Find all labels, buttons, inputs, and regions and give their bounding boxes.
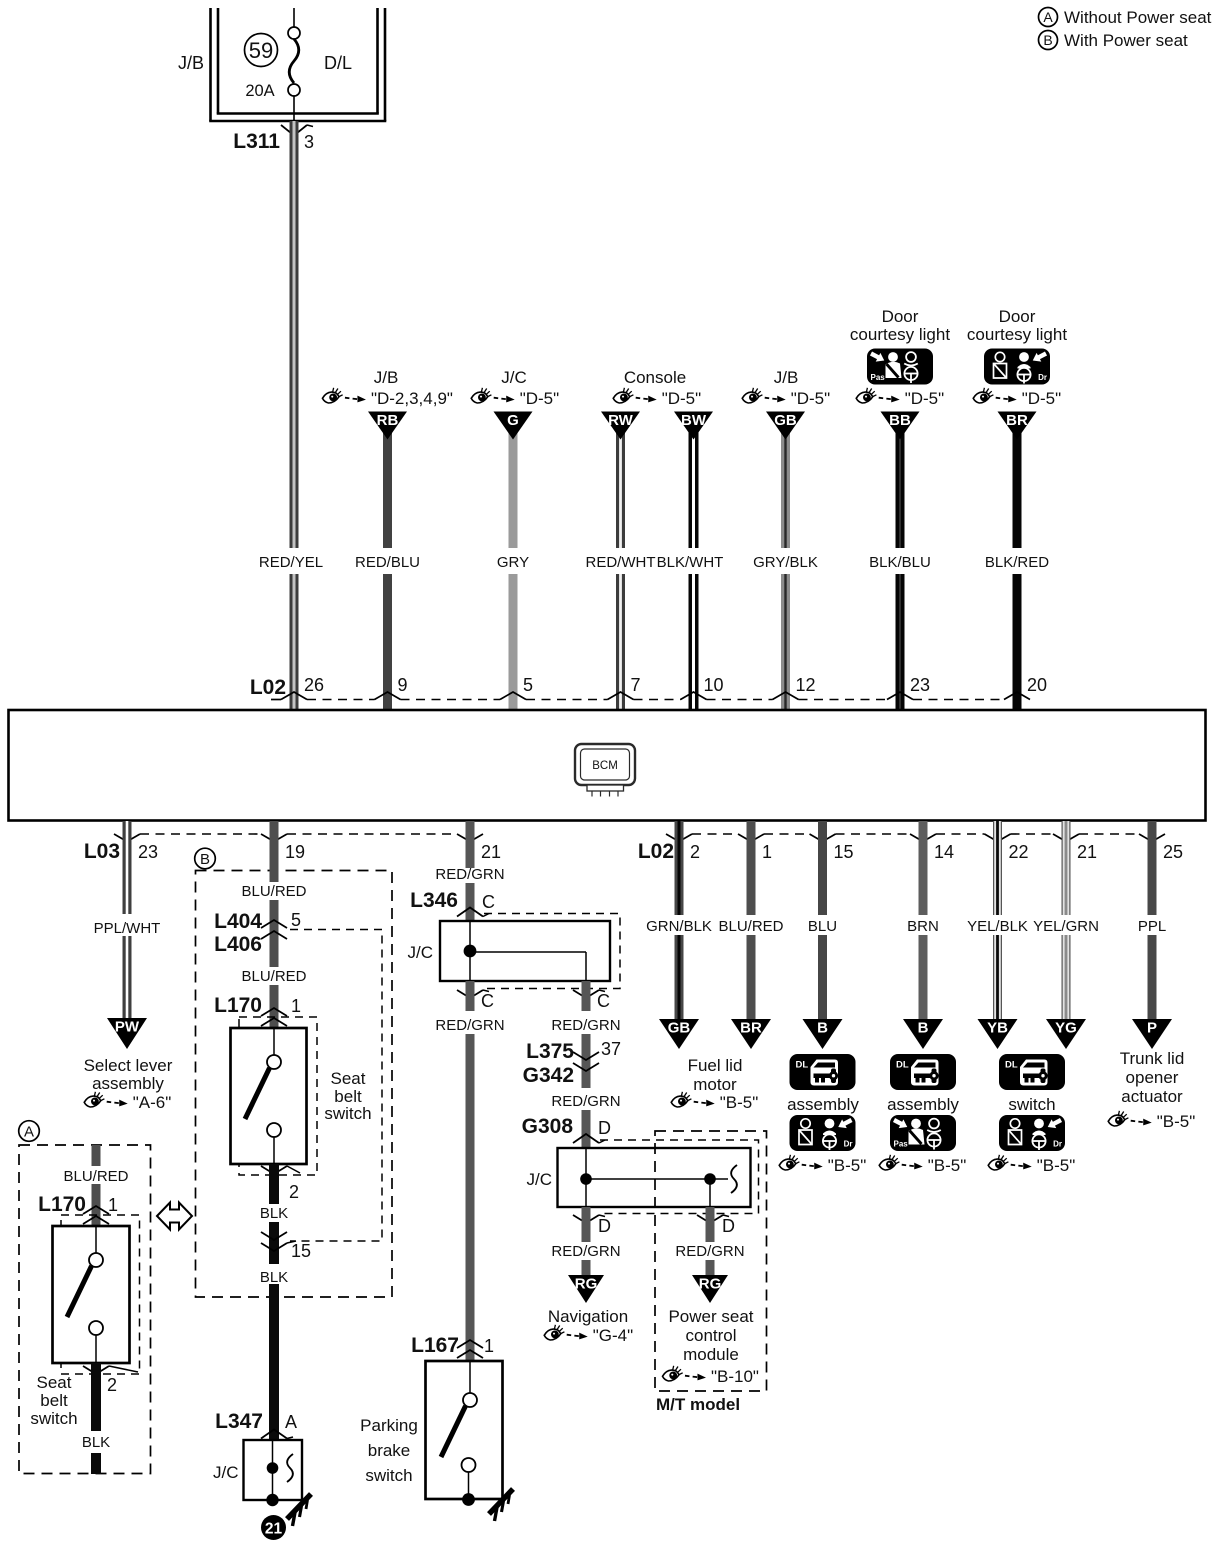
svg-text:BR: BR (1006, 412, 1028, 429)
pin D mark (G308 top) (573, 1134, 605, 1143)
svg-text:25: 25 (1163, 842, 1183, 862)
pin number 7 (L02 top) (631, 675, 641, 695)
svg-text:RED/GRN: RED/GRN (551, 1243, 620, 1260)
svg-text:"D-5": "D-5" (791, 389, 830, 408)
wire BLU/RED lower segment (747, 935, 756, 1020)
connector L375 label (526, 1040, 574, 1063)
svg-text:RED/GRN: RED/GRN (435, 866, 504, 883)
connector L167 pin marks (457, 1340, 483, 1358)
svg-text:L170: L170 (38, 1193, 86, 1216)
connector L170 label (A) (38, 1193, 86, 1216)
pin number 37 (601, 1039, 621, 1059)
svg-text:switch: switch (324, 1104, 371, 1123)
svg-text:BLU/RED: BLU/RED (241, 968, 306, 985)
see reference B-5 (fuel lid motor) (671, 1092, 758, 1112)
svg-text:Door: Door (999, 307, 1036, 326)
svg-text:RW: RW (608, 412, 634, 429)
wire BLK (B) segment 3 (269, 1284, 279, 1440)
wire label BLU/RED (upper) (241, 883, 306, 900)
svg-text:L03: L03 (84, 840, 120, 863)
header Door courtesy light (BR) (967, 307, 1067, 344)
svg-text:9: 9 (398, 675, 408, 695)
pin number 2 (L170 B) (289, 1182, 299, 1202)
svg-text:A: A (24, 1123, 34, 1140)
svg-text:Door: Door (882, 307, 919, 326)
svg-text:10: 10 (704, 675, 724, 695)
wire label PPL (1138, 918, 1166, 935)
triangle connector BB (881, 412, 920, 440)
svg-text:Seat: Seat (331, 1069, 366, 1088)
header Door courtesy light (BB) (850, 307, 950, 344)
connector L170 pin 1 marks (B) (261, 1008, 287, 1026)
svg-text:DL: DL (796, 1060, 809, 1071)
pin number 2 (L02 bottom) (690, 842, 700, 862)
svg-text:J/B: J/B (774, 368, 799, 387)
M/T model dashed box (655, 1131, 767, 1391)
svg-text:"D-5": "D-5" (905, 389, 944, 408)
svg-text:BRN: BRN (907, 918, 939, 935)
pin C mark (L346 top) (457, 908, 489, 917)
wire BLU/RED stub (A) (92, 1145, 101, 1166)
wire label BLK/BLU (869, 554, 931, 571)
svg-text:G308: G308 (522, 1115, 574, 1138)
triangle connector B (BLU) (803, 1019, 843, 1049)
connector pin 2 mark (L170 B) (261, 1166, 300, 1174)
svg-text:J/C: J/C (527, 1170, 553, 1189)
svg-text:Power seat: Power seat (668, 1307, 753, 1326)
svg-text:module: module (683, 1345, 739, 1364)
door courtesy icon Dr (pin 15) (790, 1115, 856, 1151)
svg-text:2: 2 (107, 1375, 117, 1395)
door courtesy light icon (passenger) (867, 349, 933, 385)
svg-text:RED/GRN: RED/GRN (675, 1243, 744, 1260)
svg-text:RG: RG (575, 1276, 598, 1293)
svg-text:GB: GB (774, 412, 797, 429)
legend circled B (1039, 31, 1058, 50)
pin number 1 (L167) (484, 1336, 494, 1356)
triangle connector BW (674, 412, 713, 440)
svg-text:With Power seat: With Power seat (1064, 31, 1188, 50)
svg-text:15: 15 (834, 842, 854, 862)
wire BLU upper segment (818, 821, 827, 915)
triangle connector BR (BLU/RED) (731, 1019, 771, 1049)
wire BLK (A) segment 2 (91, 1453, 101, 1474)
connector L02 top row pin marks and dashed boundary (271, 692, 1030, 700)
svg-text:B: B (1043, 32, 1052, 48)
triangle connector YB (YEL/BLK) (978, 1019, 1018, 1049)
label Parking brake switch (360, 1416, 418, 1485)
pin letter D (bottom left) (598, 1216, 611, 1236)
label switch (pins 22/21) (1008, 1095, 1055, 1114)
wire RED/GRN left branch segment (466, 981, 475, 1011)
wire label GRY (497, 554, 529, 571)
svg-text:21: 21 (481, 842, 501, 862)
break mark (G308 J/C) (731, 1165, 737, 1193)
wire BLU/RED upper segment (747, 821, 756, 915)
svg-text:PPL/WHT: PPL/WHT (94, 920, 161, 937)
svg-text:L375: L375 (526, 1040, 574, 1063)
wire PPL upper segment (1148, 821, 1157, 915)
label D/L (324, 53, 352, 73)
svg-text:L311: L311 (233, 130, 280, 153)
svg-text:19: 19 (285, 842, 305, 862)
wire label RED/GRN (top) (435, 866, 504, 883)
svg-text:"D-5": "D-5" (662, 389, 701, 408)
pin number 23 (L03) (138, 842, 158, 862)
connector L03 label (84, 840, 120, 863)
wire YEL/GRN lower segment (1062, 935, 1070, 1020)
wire label RED/GRN (power seat) (675, 1243, 744, 1260)
svg-text:GB: GB (668, 1020, 691, 1037)
wire label YEL/BLK (967, 918, 1028, 935)
svg-text:RED/GRN: RED/GRN (551, 1093, 620, 1110)
pin number 15 (291, 1241, 311, 1261)
label Navigation (548, 1307, 628, 1326)
wire BLK (B) segment 2 (269, 1222, 279, 1264)
wire BLK (B) segment 1 (269, 1164, 279, 1204)
svg-text:"D-5": "D-5" (1022, 389, 1061, 408)
svg-text:Dr: Dr (1038, 373, 1047, 382)
pin number 1 (L02 bottom) (762, 842, 772, 862)
svg-text:A: A (285, 1412, 297, 1432)
wire PPL lower segment (1148, 935, 1157, 1020)
svg-text:J/C: J/C (408, 943, 434, 962)
see reference D-5 (GB) (742, 388, 830, 408)
junction connector J/C (L347) box (244, 1440, 303, 1500)
svg-text:motor: motor (693, 1075, 737, 1094)
header J/B (RB column) (374, 368, 399, 387)
svg-text:26: 26 (304, 675, 324, 695)
seat belt switch (A) box and contacts (53, 1226, 130, 1363)
pin letter D (G308 top) (598, 1118, 611, 1138)
svg-text:59: 59 (249, 38, 273, 63)
wire to BCM at x=785.5 upper segment (781, 428, 790, 548)
door lock assembly icon (pin 15) (790, 1054, 856, 1090)
svg-text:YB: YB (987, 1020, 1008, 1037)
door courtesy light icon (driver) (984, 349, 1050, 385)
svg-text:D: D (598, 1118, 611, 1138)
svg-text:23: 23 (910, 675, 930, 695)
wire BRN upper segment (919, 821, 928, 915)
BCM module box (9, 710, 1206, 821)
connector L02 (top) label (250, 676, 286, 699)
wire to BCM at x=513 upper segment (509, 428, 518, 548)
connector pin 2 mark (L170 A) (83, 1366, 138, 1374)
svg-text:A: A (1043, 9, 1053, 25)
svg-text:1: 1 (762, 842, 772, 862)
wire BLU/RED (A) segment 2 (92, 1184, 101, 1226)
svg-text:12: 12 (796, 675, 816, 695)
see reference D-5 (Console) (613, 388, 701, 408)
svg-text:5: 5 (523, 675, 533, 695)
svg-text:L346: L346 (410, 889, 458, 912)
svg-text:BB: BB (889, 412, 911, 429)
svg-text:23: 23 (138, 842, 158, 862)
svg-text:C: C (481, 991, 494, 1011)
label Trunk lid opener actuator (1120, 1049, 1185, 1106)
seat belt switch dashed box (B) (239, 1017, 317, 1175)
wire label RED/WHT (586, 554, 656, 571)
wire label RED/BLU (355, 554, 420, 571)
svg-text:PW: PW (115, 1019, 140, 1036)
wire label RED/GRN (left branch) (435, 1017, 504, 1034)
wire to BCM at x=387.5 upper segment (383, 428, 392, 548)
svg-text:Fuel lid: Fuel lid (688, 1056, 743, 1075)
door lock switch icon (pins 22/21) (999, 1054, 1065, 1090)
wire RED/YEL lower segment (290, 574, 299, 710)
svg-text:RED/GRN: RED/GRN (435, 1017, 504, 1034)
connector L170 label (B) (214, 994, 262, 1017)
wire RED/GRN segment to G308 (582, 1110, 591, 1148)
svg-text:J/C: J/C (501, 368, 527, 387)
connector L375/G342 pin marks (573, 1052, 599, 1071)
triangle connector P (PPL) (1132, 1019, 1172, 1049)
label Power seat control module (668, 1307, 753, 1364)
pin letter C (bottom right) (597, 991, 610, 1011)
wire lower segment x=1017 (1013, 574, 1022, 710)
svg-text:21: 21 (1077, 842, 1097, 862)
svg-text:J/C: J/C (213, 1463, 239, 1482)
svg-text:L167: L167 (411, 1334, 459, 1357)
svg-text:YG: YG (1055, 1020, 1077, 1037)
svg-text:BR: BR (740, 1020, 762, 1037)
BCM connector icon (575, 744, 635, 797)
svg-text:Parking: Parking (360, 1416, 418, 1435)
svg-text:L406: L406 (214, 933, 262, 956)
svg-text:RB: RB (377, 412, 399, 429)
svg-text:assembly: assembly (787, 1095, 859, 1114)
wire PPL/WHT lower segment (123, 936, 132, 1018)
header J/B (GB column) (774, 368, 799, 387)
triangle connector RG (power seat) (692, 1275, 728, 1303)
label J/C (L346) (408, 943, 434, 962)
connector L347 label (215, 1410, 263, 1433)
pin D mark (G308 bottom right) (697, 1215, 729, 1223)
wire label BLK (A) (82, 1434, 110, 1451)
connector L404 label (214, 910, 262, 933)
connector L03 bottom pin marks (114, 834, 483, 842)
svg-text:J/B: J/B (178, 53, 204, 73)
svg-text:5: 5 (291, 910, 301, 930)
see reference B-10 (power seat) (662, 1366, 758, 1386)
wire RED/GRN to navigation segment 1 (582, 1207, 591, 1242)
junction dot at L347 ground node (266, 1494, 278, 1506)
svg-text:J/B: J/B (374, 368, 399, 387)
svg-text:1: 1 (484, 1336, 494, 1356)
svg-text:assembly: assembly (887, 1095, 959, 1114)
wire label BLK (B lower) (260, 1269, 288, 1286)
parking brake switch box and contacts (426, 1361, 503, 1499)
svg-text:brake: brake (368, 1441, 411, 1460)
svg-text:BLK: BLK (260, 1205, 288, 1222)
svg-text:"G-4": "G-4" (593, 1326, 633, 1345)
see reference B-5 (pin 14) (879, 1155, 966, 1175)
svg-text:"B-5": "B-5" (1157, 1112, 1196, 1131)
pin number 2 (L170 A) (107, 1375, 117, 1395)
wire label GRN/BLK (646, 918, 712, 935)
connector pin 15 marks (261, 1232, 296, 1251)
triangle connector GB (766, 412, 805, 440)
svg-text:C: C (597, 991, 610, 1011)
pin number 26 (L02 top) (304, 675, 324, 695)
wire RED/GRN to power seat segment 1 (706, 1207, 715, 1242)
section marker circled B (195, 848, 216, 869)
pin letter D (bottom right) (722, 1216, 735, 1236)
wire label BLU/RED (A) (63, 1168, 128, 1185)
wire BLU/RED segment 3 (270, 985, 279, 1028)
see reference D-5 (BR) (973, 388, 1061, 408)
svg-text:37: 37 (601, 1039, 621, 1059)
svg-text:RED/BLU: RED/BLU (355, 554, 420, 571)
wire label RED/GRN (right branch) (551, 1017, 620, 1034)
wire YEL/BLK upper segment (994, 821, 1002, 915)
wire YEL/GRN upper segment (1062, 821, 1070, 915)
svg-text:"B-10": "B-10" (711, 1367, 759, 1386)
svg-text:GRN/BLK: GRN/BLK (646, 918, 712, 935)
see reference D-2,3,4,9 (RB) (322, 388, 453, 408)
svg-text:B: B (817, 1020, 828, 1037)
door lock assembly icon (pin 14) (890, 1054, 956, 1090)
section marker circled A (19, 1121, 40, 1142)
svg-text:7: 7 (631, 675, 641, 695)
pin number 12 (L02 top) (796, 675, 816, 695)
connector L404/L406 pin marks (261, 920, 287, 939)
wire lower segment x=387.5 (383, 574, 392, 710)
see reference D-5 (BB) (856, 388, 944, 408)
see reference G-4 (navigation) (544, 1325, 633, 1345)
svg-text:BLK/RED: BLK/RED (985, 554, 1049, 571)
pin number 5 (L02 top) (523, 675, 533, 695)
svg-text:1: 1 (291, 996, 301, 1016)
wire to BCM at x=620.5 upper segment (616, 428, 625, 548)
legend circled A (1039, 8, 1058, 27)
pin number 25 (L02 bottom) (1163, 842, 1183, 862)
wire label BLU/RED (718, 918, 783, 935)
fuse number 59 circled (245, 34, 278, 67)
wire lower segment x=900 (896, 574, 905, 710)
wire BLU lower segment (818, 935, 827, 1020)
see reference B-5 (pin 15) (779, 1155, 866, 1175)
connector L346 label (410, 889, 458, 912)
svg-text:BLK/WHT: BLK/WHT (657, 554, 724, 571)
svg-text:Select lever: Select lever (84, 1056, 173, 1075)
svg-text:Seat: Seat (37, 1373, 72, 1392)
header J/C (G column) (501, 368, 527, 387)
svg-text:P: P (1147, 1020, 1157, 1037)
svg-text:Dr: Dr (844, 1140, 853, 1149)
pin number 21 (L03) (481, 842, 501, 862)
junction connector J/C (L346) box (440, 921, 610, 981)
svg-text:courtesy light: courtesy light (850, 325, 950, 344)
wire RED/GRN right branch segment (582, 981, 591, 1011)
svg-text:21: 21 (265, 1521, 283, 1538)
label assembly (pin 15) (787, 1095, 859, 1114)
svg-text:BLK: BLK (260, 1269, 288, 1286)
connector L311 (233, 130, 280, 153)
label J/B (178, 53, 204, 73)
svg-text:15: 15 (291, 1241, 311, 1261)
svg-text:actuator: actuator (1121, 1087, 1183, 1106)
header Console (624, 368, 686, 387)
wire BLU/RED segment 2 (270, 900, 279, 967)
triangle connector G (494, 412, 533, 440)
label M/T model (656, 1395, 740, 1414)
connector L406 label (214, 933, 262, 956)
svg-text:opener: opener (1126, 1068, 1179, 1087)
wire lower segment x=513 (509, 574, 518, 710)
svg-text:switch: switch (1008, 1095, 1055, 1114)
svg-text:D: D (722, 1216, 735, 1236)
svg-text:RED/WHT: RED/WHT (586, 554, 656, 571)
svg-text:control: control (685, 1326, 736, 1345)
wire PPL/WHT upper segment (123, 821, 132, 914)
junction connector J/C (G308) box (558, 1148, 751, 1207)
pin D mark (G308 bottom left) (573, 1215, 605, 1223)
svg-text:BLU: BLU (808, 918, 837, 935)
svg-text:"D-5": "D-5" (520, 389, 559, 408)
svg-text:B: B (918, 1020, 929, 1037)
pin number 10 (L02 top) (704, 675, 724, 695)
door courtesy icon Pas (pin 14) (890, 1115, 956, 1151)
wire BRN lower segment (919, 935, 928, 1020)
svg-text:courtesy light: courtesy light (967, 325, 1067, 344)
fuse rating 20A (245, 82, 274, 100)
G308 J/C dashed boundary (600, 1140, 759, 1214)
svg-text:GRY/BLK: GRY/BLK (753, 554, 818, 571)
label Fuel lid motor (688, 1056, 743, 1094)
svg-text:Pas: Pas (894, 1140, 909, 1149)
wire label RED/GRN (navigation) (551, 1243, 620, 1260)
svg-text:L170: L170 (214, 994, 262, 1017)
pin number 19 (L03) (285, 842, 305, 862)
break mark (L347 J/C) (287, 1454, 293, 1482)
svg-text:"B-5": "B-5" (720, 1093, 759, 1112)
label J/C (G308) (527, 1170, 553, 1189)
pin number 9 (L02 top) (398, 675, 408, 695)
svg-text:Dr: Dr (1053, 1140, 1062, 1149)
svg-text:2: 2 (690, 842, 700, 862)
svg-text:L02: L02 (250, 676, 286, 699)
triangle connector RG (navigation) (568, 1275, 604, 1303)
pin number 22 (L02 bottom) (1009, 842, 1029, 862)
wire RED/GRN to navigation segment 2 (582, 1260, 591, 1276)
svg-text:belt: belt (40, 1391, 68, 1410)
ground symbol (L347) (287, 1494, 311, 1526)
svg-text:DL: DL (1005, 1060, 1018, 1071)
wire RED/YEL (fuse to BCM L02-26), upper segment (290, 121, 299, 548)
see reference A-6 (select lever) (84, 1092, 171, 1112)
svg-text:DL: DL (896, 1060, 909, 1071)
pin C mark (L346 bottom right) (573, 990, 605, 998)
label Seat belt switch (B) (324, 1069, 371, 1123)
wire to BCM at x=693.5 upper segment (689, 428, 699, 548)
door courtesy icon Dr (pins 22/21) (999, 1115, 1065, 1151)
svg-text:BLU/RED: BLU/RED (718, 918, 783, 935)
svg-text:BLK: BLK (82, 1434, 110, 1451)
svg-text:"B-5": "B-5" (928, 1156, 967, 1175)
junction block J/B (fuse box) (209, 8, 386, 121)
svg-text:"D-2,3,4,9": "D-2,3,4,9" (371, 389, 453, 408)
wire GRN/BLK upper segment (675, 821, 684, 915)
svg-text:BW: BW (681, 412, 707, 429)
pin number 1 (L170 A) (108, 1195, 118, 1215)
svg-text:14: 14 (934, 842, 954, 862)
triangle connector RB (368, 412, 407, 440)
see reference B-5 (trunk lid) (1108, 1111, 1195, 1131)
svg-text:L02: L02 (638, 840, 674, 863)
wire lower segment x=785.5 (781, 574, 790, 710)
connector G308 label (522, 1115, 574, 1138)
